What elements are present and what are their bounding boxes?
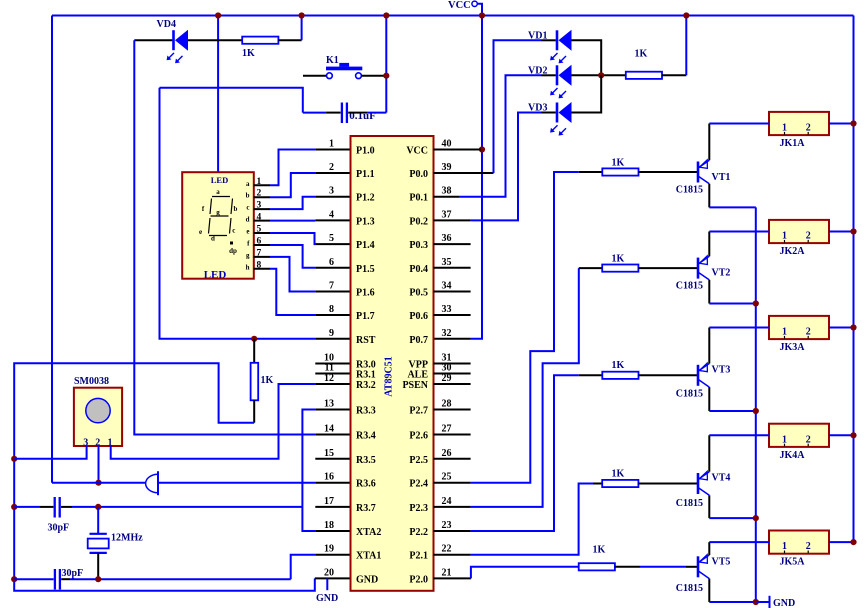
svg-text:1K: 1K [242, 48, 255, 59]
wire VT5 emitter to rail [709, 601, 756, 603]
svg-text:6: 6 [329, 257, 334, 268]
wire VT4 emitter vertical [708, 495, 710, 518]
svg-text:26: 26 [442, 448, 452, 459]
wire VT4 base lead [638, 483, 698, 485]
wire pin13 stub [315, 409, 350, 411]
wire K1 left leg / reset net to RST pin9 [160, 88, 303, 113]
svg-text:VT1: VT1 [712, 172, 731, 183]
svg-text:VD2: VD2 [528, 65, 547, 76]
svg-text:22: 22 [442, 544, 452, 555]
wire VD3 anode [572, 75, 602, 112]
LED VD4 cathode bar [172, 30, 175, 50]
svg-text:11: 11 [325, 363, 334, 374]
wire pin20 GND stub [315, 577, 351, 579]
wire pin39 stub to VD1 [434, 172, 494, 174]
svg-text:P2.3: P2.3 [409, 503, 428, 514]
wire LED display common to VCC rail [217, 16, 219, 173]
svg-text:P1.6: P1.6 [356, 288, 375, 299]
svg-text:c: c [232, 227, 235, 235]
resistor R-VT2 1K body [602, 265, 638, 272]
svg-text:C1815: C1815 [676, 389, 703, 400]
resistor R-VD4 1K body [242, 37, 278, 44]
wire JK4A left lead [709, 434, 769, 436]
svg-text:24: 24 [442, 496, 452, 507]
svg-text:R3.1: R3.1 [356, 370, 376, 381]
svg-text:39: 39 [442, 162, 452, 173]
wire pin23 stub [434, 530, 471, 532]
wire pin40 VCC stub [434, 149, 482, 151]
svg-text:d: d [211, 235, 215, 243]
svg-text:P2.4: P2.4 [409, 479, 428, 490]
JK1A pin2 mark [807, 132, 809, 135]
JK5A pin2 mark [807, 551, 809, 554]
transistor VT4 C1815 [697, 473, 700, 494]
svg-text:LED: LED [204, 269, 227, 281]
resistor R-VT3 1K body [602, 372, 638, 379]
wire pin24 stub [434, 506, 471, 508]
wire pin21 stub [434, 577, 471, 579]
svg-text:8: 8 [329, 304, 334, 315]
JK2A pin2 mark [807, 240, 809, 243]
wire pin28 stub (n.c.) [434, 409, 471, 411]
wire VT4 collector vertical [708, 435, 710, 471]
relay connector JK5A body [769, 531, 829, 554]
wire XTAL top line [14, 506, 40, 508]
svg-text:36: 36 [442, 233, 452, 244]
wire VCC to curved-plate cap [52, 482, 146, 484]
wire cap symbol to pin16 R3.6 [158, 482, 315, 484]
wire display pin 8 to chip pin 8 [254, 268, 270, 270]
LED VD4 triangle [175, 30, 188, 51]
svg-text:a: a [216, 188, 220, 196]
svg-text:P2.1: P2.1 [409, 551, 428, 562]
wire emitter common rail [755, 207, 757, 602]
svg-text:PSEN: PSEN [402, 380, 428, 391]
junction top rail / VD4 resistor [299, 12, 305, 18]
wire pin19 stub [315, 554, 350, 556]
wire VT1 emitter to rail [709, 206, 756, 208]
wire JK1A right lead [829, 123, 854, 125]
transistor VT3 C1815 [697, 365, 700, 386]
svg-text:5: 5 [329, 233, 334, 244]
wire cap right lead [348, 112, 368, 114]
svg-text:19: 19 [324, 544, 334, 555]
svg-text:P2.2: P2.2 [409, 527, 428, 538]
wire ground net (left GND rail) [14, 363, 315, 591]
ground symbol at pin20 [326, 578, 328, 590]
wire pin33 stub (n.c.) [434, 314, 471, 316]
svg-text:1K: 1K [612, 158, 625, 169]
junction rail / GND [753, 599, 759, 605]
svg-text:C1815: C1815 [676, 498, 703, 509]
svg-text:VCC: VCC [448, 0, 471, 11]
svg-text:e: e [199, 228, 202, 236]
svg-text:2: 2 [329, 162, 334, 173]
svg-text:JK1A: JK1A [780, 138, 806, 149]
wire VT1 base lead [639, 171, 699, 173]
svg-text:VD4: VD4 [157, 19, 176, 30]
resistor R-VT4 1K body [602, 480, 638, 487]
svg-text:R3.3: R3.3 [356, 406, 376, 417]
wire pin13 R3.3 net down to pin18 XTA2 [302, 410, 315, 532]
transistor VT5 C1815 [697, 556, 700, 577]
svg-text:29: 29 [442, 373, 452, 384]
junction right rail / JK5A [850, 539, 856, 545]
wire VT3 emitter vertical [708, 387, 710, 411]
junction right rail / JK1A [850, 120, 856, 126]
svg-text:XTA1: XTA1 [356, 551, 381, 562]
junction rail / VT2 emitter [753, 300, 759, 306]
wire pin29 stub (n.c.) [434, 383, 471, 385]
wire JK5A right lead [829, 541, 854, 543]
svg-text:1: 1 [782, 231, 787, 242]
wire display pin 7 to chip pin 7 [254, 256, 270, 258]
LED VD2 emission arrows [552, 88, 558, 94]
wire VT5 base lead [615, 566, 640, 568]
svg-text:P0.0: P0.0 [409, 169, 428, 180]
crystal 12MHz [97, 507, 99, 534]
svg-text:P0.4: P0.4 [409, 264, 428, 275]
svg-text:1: 1 [782, 434, 787, 445]
svg-text:VD3: VD3 [528, 103, 547, 114]
wire pin22 stub [434, 554, 471, 556]
svg-text:g: g [216, 209, 220, 217]
wire pin9 RST stub [315, 338, 350, 340]
svg-text:34: 34 [442, 281, 452, 292]
svg-text:1K: 1K [612, 469, 625, 480]
SM0038 lens [86, 398, 110, 422]
wire VD4 resistor to VCC rail [278, 39, 301, 41]
wire VT5 collector vertical [708, 542, 710, 555]
wire VT4 emitter to rail [709, 517, 756, 519]
svg-text:XTA2: XTA2 [356, 527, 381, 538]
svg-text:C1815: C1815 [676, 185, 703, 196]
junction GND rail / SM0038 pin3 [11, 456, 17, 462]
wire VD4 anode lead [188, 39, 242, 41]
wire to pin19 XTA1 [291, 555, 316, 580]
wire cap left lead [326, 112, 341, 114]
svg-text:VT4: VT4 [712, 473, 731, 484]
LED VD3 emission arrows [552, 125, 558, 131]
svg-text:GND: GND [773, 598, 795, 608]
relay connector JK4A body [769, 424, 829, 447]
svg-text:20: 20 [324, 567, 334, 578]
wire K1 right riser to VCC rail [385, 16, 387, 113]
svg-text:2: 2 [806, 327, 811, 338]
wire JK2A right lead [829, 231, 854, 233]
svg-text:14: 14 [324, 424, 334, 435]
svg-text:b: b [234, 205, 238, 213]
wire VT2 emitter to rail [709, 303, 756, 305]
LED VD2 cathode bar [556, 65, 559, 85]
LED VD1 cathode bar [556, 30, 559, 50]
wire VT5 emitter vertical [708, 579, 710, 602]
wire VD resistor to VCC rail [662, 74, 686, 76]
svg-text:JK4A: JK4A [780, 450, 806, 461]
resistor R-VT5 1K body [579, 563, 615, 570]
junction top rail / K1 riser [383, 12, 389, 18]
svg-text:C1815: C1815 [676, 583, 703, 594]
svg-text:P1.1: P1.1 [356, 169, 375, 180]
svg-text:P2.5: P2.5 [409, 455, 428, 466]
7-segment digit drawing [209, 197, 233, 236]
wire pin32 stub [434, 338, 471, 340]
junction VD anodes [598, 72, 604, 78]
svg-text:P1.5: P1.5 [356, 264, 375, 275]
svg-text:VT2: VT2 [712, 268, 731, 279]
svg-text:1K: 1K [612, 360, 625, 371]
junction GND rail / 30pF bottom [11, 576, 17, 582]
junction top rail / VD resistor [683, 12, 689, 18]
wire pin25 stub [434, 482, 471, 484]
junction right rail / JK4A [850, 432, 856, 438]
wire K1 left stub [303, 75, 326, 77]
wire pin15 stub (n.c.) [315, 458, 350, 460]
junction XTAL top / crystal [95, 504, 101, 510]
wire VT2 collector vertical [708, 232, 710, 257]
junction right rail / JK2A [850, 228, 856, 234]
wire JK1A left lead [709, 123, 769, 125]
svg-text:30pF: 30pF [48, 523, 70, 534]
LED VD4 emission arrows [168, 53, 174, 59]
svg-text:e: e [246, 228, 249, 236]
wire display pin 2 to chip pin 2 [254, 196, 270, 198]
wire pin18 XTA2 stub [315, 530, 350, 532]
wire pin21 P2.0 to VT5 base resistor [471, 567, 579, 579]
svg-text:VT3: VT3 [712, 365, 731, 376]
wire VCC left drop [51, 16, 53, 483]
IC U1 AT89C51 body [351, 136, 434, 591]
svg-text:1K: 1K [261, 375, 274, 386]
svg-text:2: 2 [806, 231, 811, 242]
capacitor 30pF top plates [54, 497, 56, 518]
svg-text:13: 13 [324, 399, 334, 410]
svg-text:P0.5: P0.5 [409, 288, 428, 299]
svg-text:30pF: 30pF [62, 568, 84, 579]
resistor R-RST 1K (vertical) [251, 363, 259, 401]
wire VT2 base lead [638, 267, 698, 269]
svg-text:RST: RST [356, 335, 376, 346]
svg-text:VCC: VCC [406, 146, 428, 157]
LED VD3 triangle [559, 102, 572, 123]
svg-text:g: g [246, 251, 250, 259]
LED VD1 emission arrows [552, 53, 558, 59]
wire pin25 P2.4 to VT1 base resistor [471, 172, 579, 483]
svg-text:12: 12 [324, 373, 334, 384]
svg-text:16: 16 [324, 472, 334, 483]
junction right rail / JK3A [850, 324, 856, 330]
JK5A pin1 mark [784, 551, 786, 554]
svg-text:35: 35 [442, 257, 452, 268]
display LED (7-segment) body [182, 172, 254, 279]
wire pin24 P2.3 to VT2 base resistor [471, 268, 579, 507]
wire JK3A left lead [709, 327, 769, 329]
svg-text:GND: GND [316, 593, 338, 604]
wire RST resistor top lead [253, 339, 255, 363]
svg-text:ALE: ALE [407, 370, 428, 381]
wire VT3 emitter to rail [709, 410, 756, 412]
wire VD2 cathode net [459, 75, 541, 196]
wire RST resistor bottom lead [253, 400, 255, 422]
wire pin26 stub (n.c.) [434, 458, 471, 460]
svg-text:R3.4: R3.4 [356, 431, 376, 442]
svg-text:P1.7: P1.7 [356, 311, 375, 322]
junction top rail / VCC entry [479, 12, 485, 18]
svg-text:AT89C51: AT89C51 [384, 356, 395, 396]
wire display pin 3 to chip pin 3 [254, 208, 270, 210]
svg-text:P1.3: P1.3 [356, 216, 375, 227]
wire pin12 stub [315, 383, 350, 385]
svg-text:P1.2: P1.2 [356, 193, 375, 204]
wire pin36 stub (n.c.) [434, 243, 471, 245]
junction K1 right / cap right [383, 73, 389, 79]
relay connector JK2A body [769, 220, 829, 243]
ground symbol bottom right [756, 601, 769, 603]
wire crystal bottom lead [97, 553, 99, 579]
LED VD1 triangle [559, 30, 572, 51]
svg-text:JK5A: JK5A [780, 557, 806, 568]
wire pin22 P2.1 to VT4 base resistor [471, 484, 593, 555]
wire display pin 4 to chip pin 4 [254, 220, 270, 222]
capacitor (curved plate symbol) [146, 474, 158, 493]
svg-text:1: 1 [782, 541, 787, 552]
JK3A pin2 mark [807, 336, 809, 339]
JK3A pin1 mark [784, 336, 786, 339]
svg-text:P0.7: P0.7 [409, 335, 428, 346]
wire display pin 1 to chip pin 1 [254, 184, 270, 186]
svg-text:33: 33 [442, 304, 452, 315]
svg-text:dp: dp [229, 247, 237, 255]
svg-text:1: 1 [782, 327, 787, 338]
svg-text:R3.5: R3.5 [356, 455, 376, 466]
transistor VT1 C1815 [697, 162, 700, 183]
junction XTAL bottom / crystal [95, 576, 101, 582]
svg-text:SM0038: SM0038 [74, 376, 109, 387]
wire VD1 cathode net [494, 40, 542, 173]
svg-text:b: b [246, 192, 250, 200]
svg-text:1: 1 [782, 123, 787, 134]
wire K1 right stub [362, 75, 385, 77]
svg-text:c: c [246, 204, 249, 212]
svg-text:JK2A: JK2A [780, 246, 806, 257]
wire pin30 stub (n.c.) [434, 373, 471, 375]
wire pin31 stub (n.c.) [434, 363, 471, 365]
svg-text:h: h [246, 263, 250, 271]
svg-text:28: 28 [442, 399, 452, 410]
svg-text:27: 27 [442, 424, 452, 435]
svg-text:18: 18 [324, 520, 334, 531]
JK1A pin1 mark [784, 132, 786, 135]
wire pin37 stub to VD3 [434, 219, 471, 221]
svg-text:C1815: C1815 [676, 281, 703, 292]
wire display pin 6 to chip pin 6 [254, 244, 270, 246]
svg-text:1K: 1K [593, 545, 606, 556]
wire pin11 stub (n.c.) [315, 373, 350, 375]
svg-text:VT5: VT5 [712, 557, 731, 568]
wire pin14 stub [315, 434, 350, 436]
svg-text:40: 40 [442, 139, 452, 150]
wire XTAL bottom line [14, 578, 53, 580]
svg-text:LED: LED [211, 175, 228, 185]
svg-text:1K: 1K [612, 254, 625, 265]
svg-text:32: 32 [442, 328, 452, 339]
junction VCC vertical / pin40 [479, 146, 485, 152]
svg-text:2: 2 [806, 541, 811, 552]
wire VT3 collector vertical [708, 328, 710, 364]
wire pin16 stub [315, 482, 350, 484]
wire display pin 5 to chip pin 5 [254, 232, 270, 234]
svg-text:25: 25 [442, 472, 452, 483]
svg-text:P0.6: P0.6 [409, 311, 428, 322]
svg-text:7: 7 [329, 281, 334, 292]
junction SM0038 pin2 / VCC line [95, 480, 101, 486]
svg-text:1K: 1K [635, 49, 648, 60]
svg-text:d: d [246, 216, 250, 224]
JK4A pin1 mark [784, 444, 786, 447]
capacitor 0.1uF plates [341, 103, 343, 124]
svg-text:R3.2: R3.2 [356, 380, 376, 391]
svg-text:JK3A: JK3A [780, 342, 806, 353]
wire VCC top rail [52, 15, 854, 17]
wire VT1 collector vertical [708, 124, 710, 161]
wire JK3A right lead [829, 327, 854, 329]
svg-text:P0.1: P0.1 [409, 193, 428, 204]
junction GND rail / 30pF top [11, 504, 17, 510]
wire VT3 base lead [639, 374, 699, 376]
wire VD1 anode [572, 40, 602, 75]
svg-text:3: 3 [329, 186, 334, 197]
svg-text:37: 37 [442, 209, 452, 220]
svg-text:a: a [246, 180, 250, 188]
wire VT1 emitter vertical [708, 184, 710, 208]
svg-text:P2.0: P2.0 [409, 574, 428, 585]
svg-text:P1.0: P1.0 [356, 146, 375, 157]
relay connector JK3A body [769, 316, 829, 339]
svg-text:P2.6: P2.6 [409, 431, 428, 442]
wire VD4 net down to pin14 R3.4 [134, 40, 315, 434]
wire right relay common rail [853, 16, 855, 543]
resistor R-VD 1K body [626, 72, 662, 79]
wire pin35 stub (n.c.) [434, 267, 471, 269]
junction rail / VT4 emitter [753, 515, 759, 521]
wire pin10 stub (n.c.) [315, 363, 350, 365]
svg-text:K1: K1 [326, 55, 339, 66]
svg-text:15: 15 [324, 448, 334, 459]
wire SM0038 pin3 to GND [14, 446, 86, 459]
svg-text:R3.7: R3.7 [356, 503, 376, 514]
svg-text:P2.7: P2.7 [409, 406, 428, 417]
svg-text:4: 4 [329, 209, 334, 220]
junction rail / VT3 emitter [753, 408, 759, 414]
JK4A pin2 mark [807, 444, 809, 447]
wire VD4 cathode lead [134, 39, 172, 41]
svg-text:1: 1 [329, 139, 334, 150]
wire pin34 stub (n.c.) [434, 291, 471, 293]
svg-text:2: 2 [806, 434, 811, 445]
svg-text:12MHz: 12MHz [111, 533, 143, 544]
relay connector JK1A body [769, 112, 829, 135]
svg-text:P0.3: P0.3 [409, 240, 428, 251]
wire VD2 anode to resistor [572, 74, 626, 76]
wire VD3 cathode net [471, 113, 541, 221]
wire pin17 stub (n.c.) [315, 506, 350, 508]
resistor R-VT1 1K body [602, 168, 638, 175]
LED VD2 triangle [559, 65, 572, 86]
svg-text:R3.6: R3.6 [356, 479, 376, 490]
svg-text:9: 9 [329, 328, 334, 339]
wire pin38 stub to VD2 [434, 196, 460, 198]
svg-text:38: 38 [442, 186, 452, 197]
